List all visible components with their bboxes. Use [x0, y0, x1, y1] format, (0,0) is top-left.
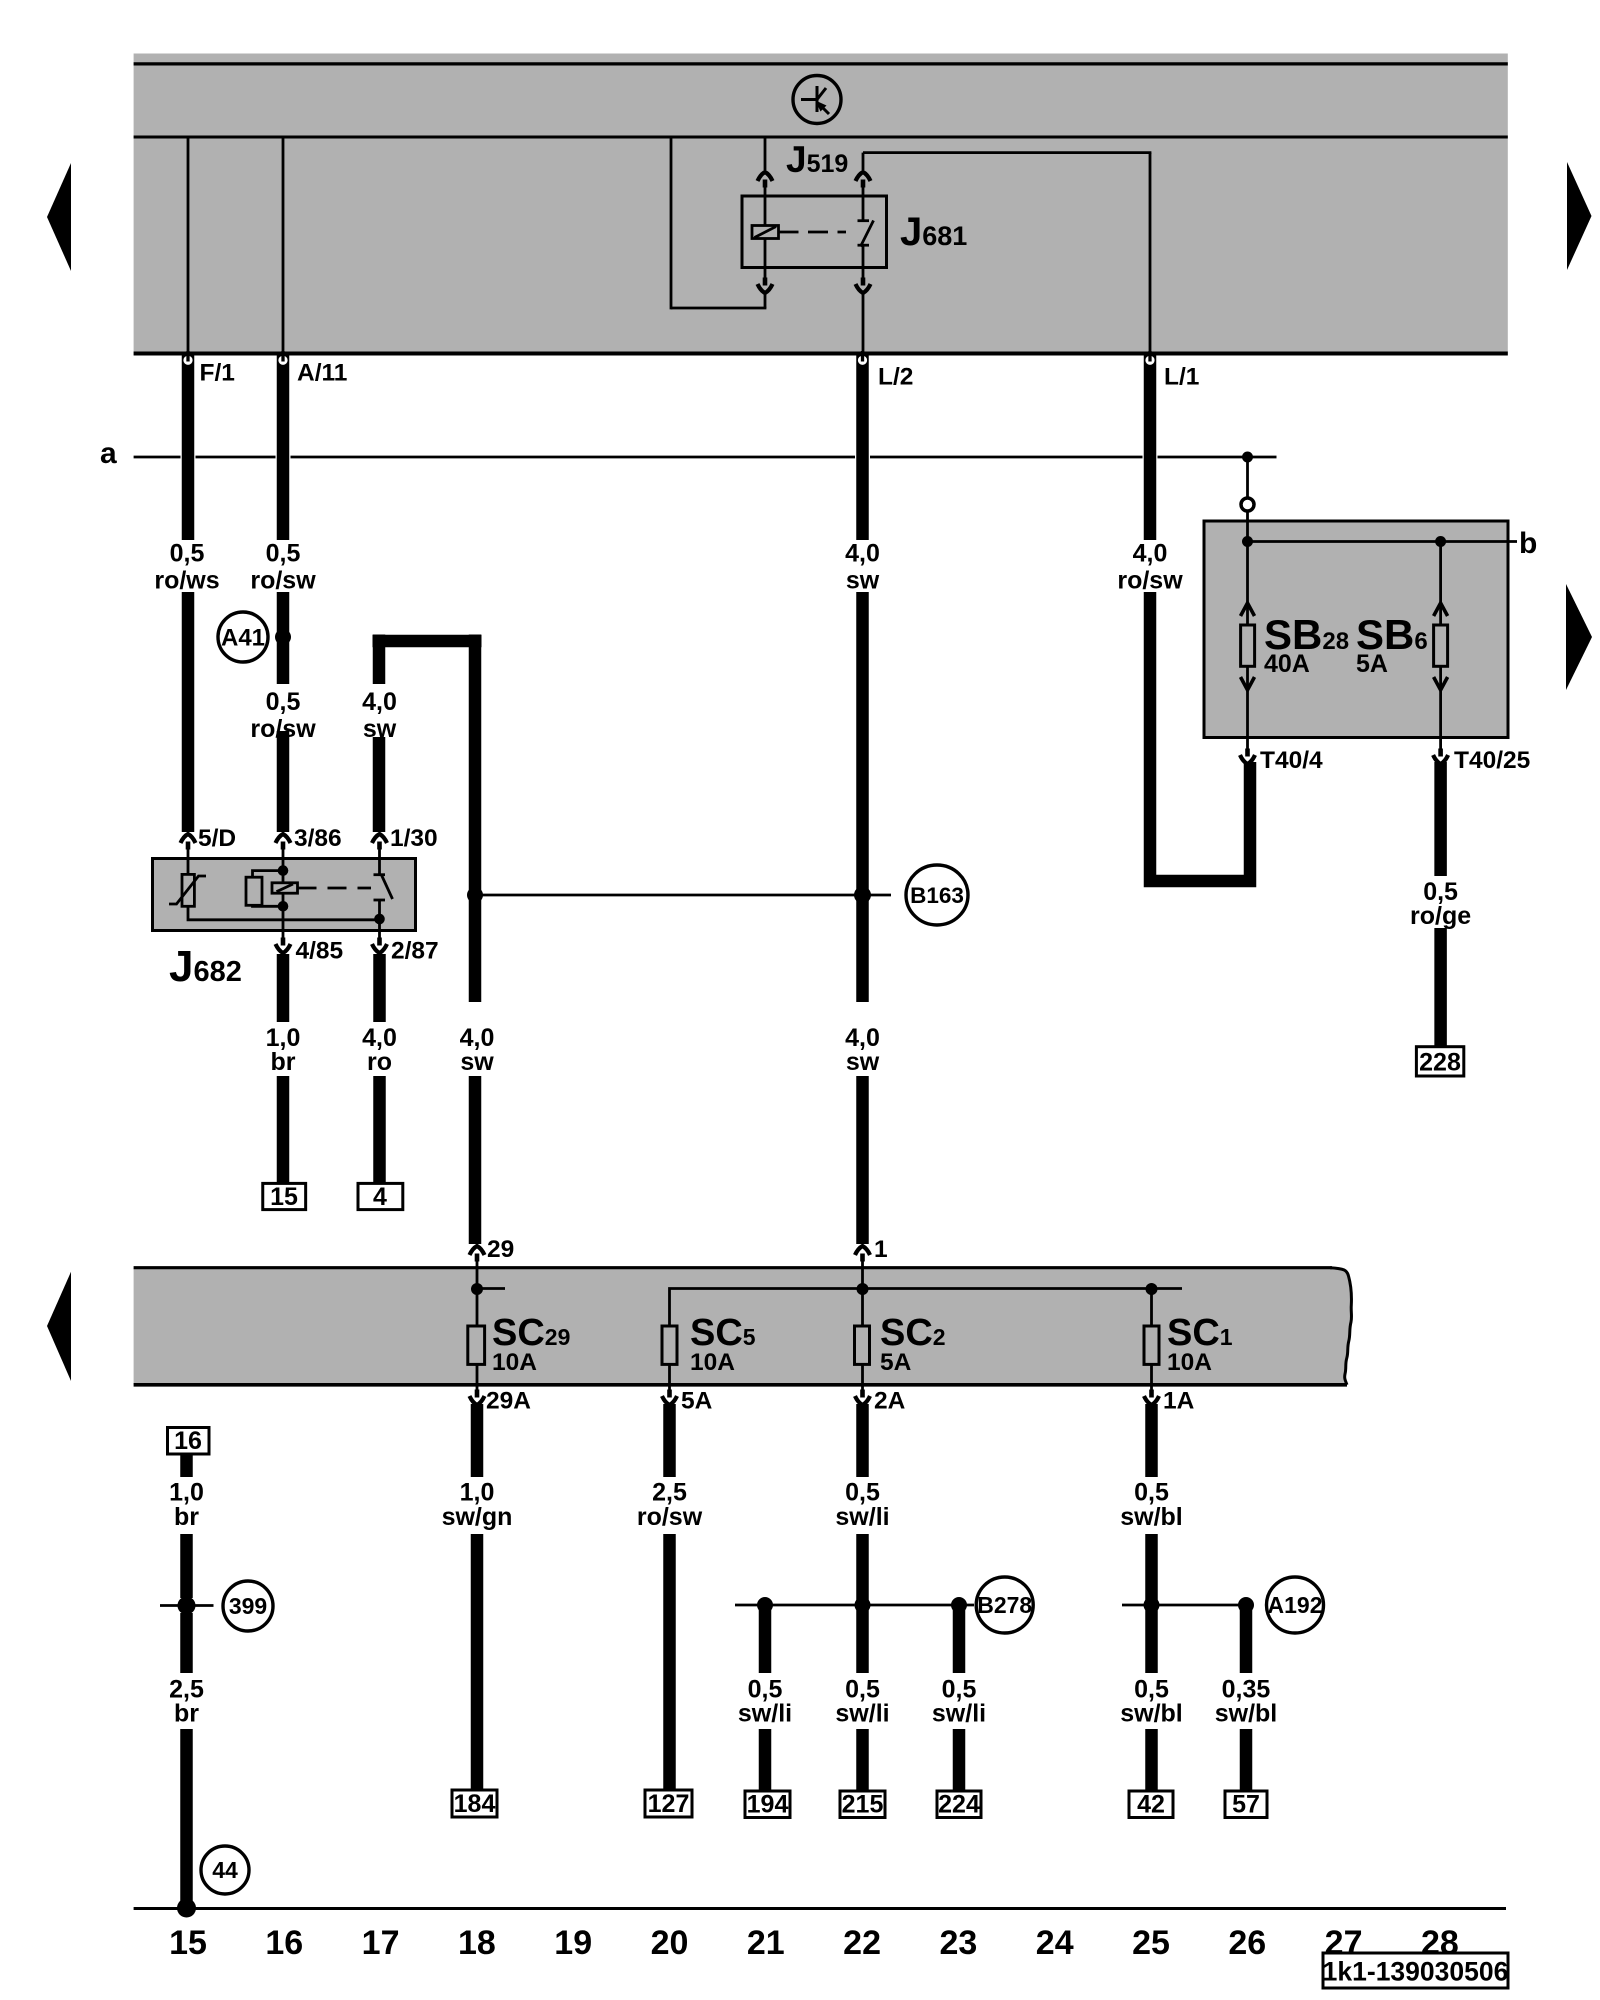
- svg-text:26: 26: [1228, 1924, 1266, 1962]
- svg-text:0,5: 0,5: [266, 688, 301, 716]
- svg-text:A/11: A/11: [297, 360, 347, 387]
- svg-text:ro: ro: [367, 1048, 392, 1076]
- svg-text:5A: 5A: [1356, 650, 1388, 678]
- svg-text:184: 184: [454, 1790, 496, 1818]
- svg-text:399: 399: [229, 1593, 267, 1619]
- svg-text:4,0: 4,0: [362, 688, 397, 716]
- svg-text:T40/25: T40/25: [1454, 747, 1530, 774]
- svg-text:L/2: L/2: [878, 364, 913, 391]
- svg-text:5A: 5A: [681, 1388, 713, 1415]
- svg-text:17: 17: [362, 1924, 400, 1962]
- svg-text:T40/4: T40/4: [1260, 747, 1323, 774]
- svg-text:sw/bl: sw/bl: [1120, 1503, 1183, 1531]
- svg-text:sw/li: sw/li: [738, 1700, 792, 1728]
- svg-text:br: br: [174, 1503, 199, 1531]
- svg-text:15: 15: [169, 1924, 207, 1962]
- svg-text:b: b: [1519, 527, 1537, 560]
- svg-text:B278: B278: [977, 1592, 1032, 1618]
- svg-text:L/1: L/1: [1164, 364, 1199, 391]
- svg-text:sw/bl: sw/bl: [1120, 1700, 1183, 1728]
- svg-text:A41: A41: [221, 625, 265, 652]
- svg-text:44: 44: [212, 1857, 238, 1883]
- svg-text:ro/sw: ro/sw: [250, 567, 316, 595]
- svg-text:1: 1: [874, 1236, 888, 1263]
- svg-text:ro/ws: ro/ws: [154, 567, 219, 595]
- svg-text:15: 15: [270, 1183, 298, 1211]
- svg-text:5/D: 5/D: [198, 825, 236, 852]
- svg-text:0,5: 0,5: [266, 540, 301, 568]
- svg-text:22: 22: [843, 1924, 881, 1962]
- svg-text:194: 194: [747, 1791, 789, 1819]
- svg-text:ro/sw: ro/sw: [1117, 567, 1183, 595]
- svg-text:1A: 1A: [1163, 1388, 1195, 1415]
- svg-text:10A: 10A: [492, 1349, 537, 1376]
- svg-text:19: 19: [554, 1924, 592, 1962]
- svg-text:sw/li: sw/li: [835, 1503, 889, 1531]
- svg-text:20: 20: [651, 1924, 689, 1962]
- svg-text:4,0: 4,0: [845, 540, 880, 568]
- svg-text:sw/li: sw/li: [835, 1700, 889, 1728]
- svg-text:5A: 5A: [880, 1349, 912, 1376]
- svg-text:23: 23: [939, 1924, 977, 1962]
- svg-text:215: 215: [842, 1791, 884, 1819]
- svg-text:B163: B163: [910, 883, 964, 908]
- svg-text:sw: sw: [846, 1048, 880, 1076]
- svg-text:sw/li: sw/li: [932, 1700, 986, 1728]
- svg-text:24: 24: [1036, 1924, 1074, 1962]
- svg-text:10A: 10A: [690, 1349, 735, 1376]
- svg-text:sw/gn: sw/gn: [442, 1503, 513, 1531]
- svg-text:228: 228: [1419, 1049, 1461, 1077]
- svg-text:21: 21: [747, 1924, 785, 1962]
- svg-text:F/1: F/1: [200, 360, 235, 387]
- svg-text:J682: J682: [169, 942, 242, 991]
- svg-text:29A: 29A: [486, 1388, 531, 1415]
- svg-text:127: 127: [648, 1790, 690, 1818]
- svg-text:br: br: [174, 1700, 199, 1728]
- svg-text:2A: 2A: [874, 1388, 906, 1415]
- svg-text:br: br: [271, 1048, 296, 1076]
- svg-text:40A: 40A: [1264, 650, 1310, 678]
- svg-text:57: 57: [1232, 1791, 1260, 1819]
- svg-text:1/30: 1/30: [390, 825, 438, 852]
- svg-text:4/85: 4/85: [296, 938, 344, 965]
- svg-text:3/86: 3/86: [294, 825, 342, 852]
- svg-text:16: 16: [265, 1924, 303, 1962]
- svg-text:18: 18: [458, 1924, 496, 1962]
- svg-text:ro/ge: ro/ge: [1410, 902, 1471, 930]
- svg-text:25: 25: [1132, 1924, 1170, 1962]
- svg-text:sw/bl: sw/bl: [1215, 1700, 1278, 1728]
- svg-text:ro/sw: ro/sw: [250, 715, 316, 743]
- svg-text:sw: sw: [460, 1048, 494, 1076]
- svg-text:27: 27: [1325, 1924, 1363, 1962]
- svg-text:sw: sw: [846, 567, 880, 595]
- svg-text:29: 29: [487, 1236, 514, 1263]
- svg-text:A192: A192: [1268, 1592, 1323, 1618]
- svg-text:a: a: [100, 437, 117, 470]
- svg-text:10A: 10A: [1167, 1349, 1212, 1376]
- svg-text:2/87: 2/87: [391, 938, 439, 965]
- svg-text:4,0: 4,0: [1133, 540, 1168, 568]
- svg-text:42: 42: [1137, 1791, 1165, 1819]
- svg-text:4: 4: [373, 1183, 387, 1211]
- svg-text:28: 28: [1421, 1924, 1459, 1962]
- svg-text:224: 224: [938, 1791, 980, 1819]
- svg-text:ro/sw: ro/sw: [637, 1503, 703, 1531]
- svg-text:16: 16: [174, 1427, 202, 1455]
- svg-text:sw: sw: [363, 715, 397, 743]
- svg-text:0,5: 0,5: [170, 540, 205, 568]
